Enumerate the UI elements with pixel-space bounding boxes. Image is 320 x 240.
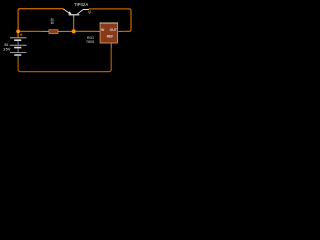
regulator box top highlight bbox=[100, 22, 119, 24]
resistor R1 body bbox=[49, 30, 58, 34]
svg-text:IN: IN bbox=[101, 28, 105, 32]
wire top rail from top-left corner to transistor emitter bbox=[18, 9, 63, 38]
node junction dot at left rail / R1 bbox=[16, 30, 20, 34]
wire R1 net right segment to regulator IN bbox=[69, 30, 97, 32]
regulator pin IN stub bbox=[98, 30, 100, 32]
regulator pin REF stub bbox=[110, 44, 112, 48]
regulator pin OUT stub bbox=[118, 30, 121, 32]
svg-text:15V: 15V bbox=[3, 47, 11, 51]
svg-text:50: 50 bbox=[51, 21, 54, 25]
svg-text:Q1: Q1 bbox=[88, 10, 91, 14]
transistor Q1 emitter arrow (PNP) bbox=[68, 11, 72, 14]
svg-text:7805: 7805 bbox=[86, 40, 94, 44]
wire REF pin down and bottom rail to battery bbox=[18, 48, 111, 72]
node junction dot base/R1/IN bbox=[72, 29, 76, 33]
transistor Q1 base bar bbox=[69, 14, 80, 15]
transistor Q1 emitter lead bbox=[63, 9, 71, 15]
op-amp U1 : regulator box RG1 7805 bbox=[100, 23, 117, 43]
battery B1 plates bbox=[10, 38, 27, 55]
wire base lead down to node bbox=[73, 17, 75, 31]
wire collector to OUT pin (right U loop) bbox=[89, 9, 131, 32]
svg-text:REF: REF bbox=[107, 34, 114, 38]
battery B1 top plus sign bbox=[20, 33, 23, 36]
wire R1 net left segment bbox=[18, 30, 41, 32]
svg-text:OUT: OUT bbox=[110, 28, 118, 32]
svg-text:TIP42A: TIP42A bbox=[74, 2, 88, 7]
resistor R1 leads bbox=[41, 30, 69, 32]
transistor Q1 collector lead bbox=[77, 10, 89, 15]
transistor Q1 base stub bbox=[73, 15, 75, 17]
battery B1 inter-cell stubs bbox=[17, 41, 19, 60]
